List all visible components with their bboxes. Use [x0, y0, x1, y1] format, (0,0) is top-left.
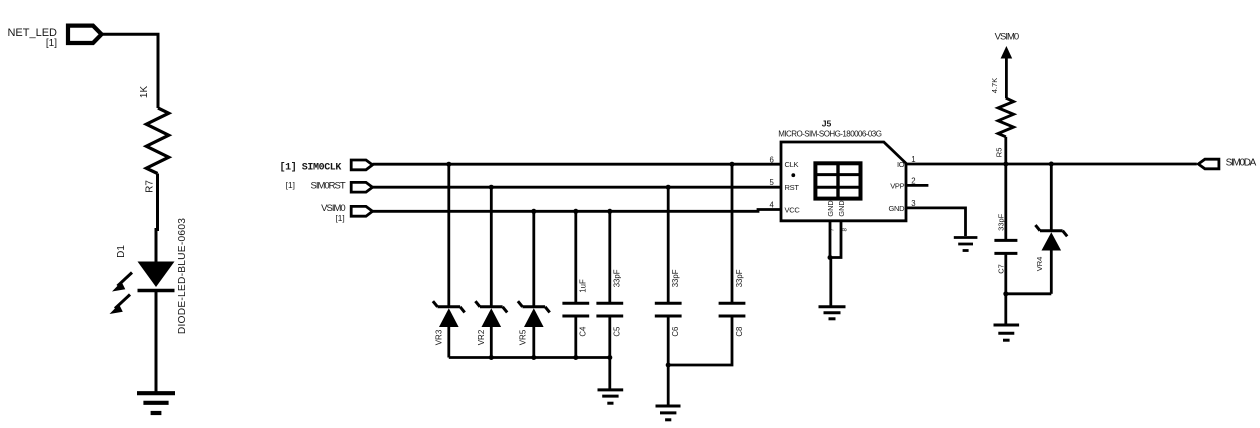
svg-text:NET_LED: NET_LED: [7, 27, 57, 39]
svg-text:SIM0RST: SIM0RST: [311, 181, 346, 192]
node junction CLK/VR3: [446, 162, 451, 167]
wire J5 pin 7 down: [829, 221, 832, 258]
svg-text:33pF: 33pF: [997, 213, 1006, 231]
svg-text:IO: IO: [897, 160, 905, 169]
wire VR2 to bus: [490, 326, 493, 358]
TVS diode VR4: [1035, 225, 1067, 271]
wire VCC line down to C5: [608, 211, 611, 302]
svg-text:VR4: VR4: [1035, 257, 1044, 272]
wire SIM0RST to J5 pin 5: [373, 186, 782, 189]
svg-text:J5: J5: [822, 119, 832, 129]
pin label GND (pin 3): [889, 199, 916, 213]
svg-text:[1]: [1]: [335, 213, 344, 223]
wire J5 pin 8 down and across: [830, 221, 841, 258]
svg-text:GND: GND: [889, 204, 906, 213]
svg-text:SIM0CLK: SIM0CLK: [302, 162, 342, 173]
port SIM0CLK: [280, 160, 373, 173]
svg-text:C7: C7: [997, 264, 1006, 274]
svg-text:GND: GND: [826, 200, 835, 216]
ground (C6): [656, 406, 681, 420]
pin label GND (pin 8) rotated: [837, 200, 849, 231]
svg-text:C6: C6: [671, 327, 680, 337]
power symbol VSIM0: [995, 31, 1019, 98]
resistor R7 1K: [139, 86, 169, 193]
svg-text:C8: C8: [735, 327, 744, 337]
ground (C7/VR4): [994, 325, 1020, 340]
TVS diode VR3: [433, 301, 465, 345]
svg-text:5: 5: [769, 178, 774, 187]
wire RST line down to C6: [667, 187, 670, 302]
node junction bus/VR2: [489, 355, 494, 360]
pin label VCC (pin 4): [769, 201, 800, 215]
wire pins 7/8 to ground: [829, 258, 832, 307]
wire node to ground: [1004, 294, 1007, 324]
TVS diode VR5: [518, 301, 550, 345]
wire J5 pin 3 GND to ground: [906, 208, 966, 236]
ground (C5 bus): [598, 390, 624, 403]
capacitor C5 33pF: [596, 269, 623, 336]
svg-text:4.7K: 4.7K: [990, 78, 999, 93]
wire J5 pin 1 IO to SIM0DA: [906, 163, 1197, 166]
node junction C7/VR4/ground: [1003, 291, 1008, 296]
svg-text:VR3: VR3: [434, 329, 443, 345]
wire VSIM0 to J5 pin 4: [373, 210, 782, 212]
wire VCC line down to VR5: [532, 211, 535, 306]
svg-text:MICRO-SIM-SOHG-180006-03G: MICRO-SIM-SOHG-180006-03G: [778, 130, 881, 139]
wire C7 down to ground node: [1004, 254, 1007, 293]
SIM card icon inside J5: [815, 163, 860, 198]
LED D1 DIODE-LED-BLUE-0603: [110, 218, 189, 334]
capacitor C4 1uF: [562, 279, 589, 337]
capacitor C6 33pF: [655, 269, 682, 336]
capacitor C7 33pF: [994, 213, 1017, 273]
svg-text:1uF: 1uF: [579, 279, 588, 293]
wire LED D1 to ground: [155, 291, 158, 392]
node junction CLK/C8: [730, 162, 735, 167]
wire C4 to bus: [574, 317, 577, 358]
svg-text:VCC: VCC: [785, 206, 801, 215]
svg-text:33pF: 33pF: [671, 269, 680, 287]
pin label CLK (pin 6): [769, 155, 798, 169]
pin label VPP (pin 2): [890, 177, 915, 191]
wire CLK line down to VR3: [447, 164, 450, 306]
ground (J5 pins 7/8): [819, 307, 846, 319]
wire RST line down to VR2: [490, 187, 493, 306]
svg-text:C5: C5: [613, 326, 622, 337]
wire C5 to bus and ground: [608, 317, 611, 389]
wire node to VR4 bottom: [1006, 292, 1052, 295]
wire J5 pin 2 VPP stub: [906, 184, 928, 187]
wire VR3 to bus: [447, 326, 450, 358]
port SIM0DA: [1198, 158, 1256, 169]
svg-text:VR2: VR2: [477, 329, 486, 345]
node junction IO/R5/C7: [1003, 162, 1008, 167]
node junction bus/VR5: [531, 355, 536, 360]
svg-text:R5: R5: [995, 148, 1004, 158]
wire C6 to ground: [667, 317, 670, 405]
port NET_LED: [7, 26, 101, 50]
wire CLK line down to C8: [731, 164, 734, 302]
wire VR4 to ground node: [1050, 250, 1053, 294]
node junction RST/C6: [666, 185, 671, 190]
port VSIM0 (net label): [321, 203, 372, 223]
wire IO line down to C7: [1004, 164, 1007, 239]
wire resistor R7 to LED D1: [156, 174, 158, 263]
connector J5 MICRO-SIM-SOHG-180006-03G body: [778, 119, 906, 221]
svg-text:VR5: VR5: [519, 329, 528, 345]
port SIM0RST: [286, 180, 373, 192]
svg-text:VSIM0: VSIM0: [995, 31, 1019, 42]
svg-text:R7: R7: [145, 180, 156, 193]
svg-text:[1]: [1]: [286, 180, 295, 190]
svg-text:D1: D1: [116, 245, 127, 258]
resistor R5 4.7K: [990, 78, 1014, 157]
svg-text:SIM0DA: SIM0DA: [1226, 158, 1257, 169]
ground (LED): [137, 393, 175, 413]
pin label IO (pin 1): [897, 155, 916, 169]
wire IO line down to VR4: [1050, 164, 1053, 230]
svg-text:[1]: [1]: [280, 161, 297, 173]
svg-text:8: 8: [842, 228, 849, 232]
svg-text:6: 6: [769, 155, 773, 164]
svg-text:VPP: VPP: [890, 181, 904, 190]
wire ground bus VR3-C5: [449, 356, 610, 359]
wire SIM0CLK to J5 pin 6: [373, 163, 782, 166]
capacitor C8 33pF: [719, 269, 746, 336]
svg-text:RST: RST: [785, 183, 800, 192]
node junction C6/C8 bus: [666, 363, 671, 368]
pin label GND (pin 7) rotated: [826, 200, 836, 231]
node junction VCC/VR5: [531, 209, 536, 214]
pin 1 marker dot inside J5: [791, 173, 795, 177]
wire R5 to IO line: [1004, 137, 1007, 164]
node junction VCC/C4: [573, 209, 578, 214]
svg-text:1K: 1K: [139, 86, 150, 99]
svg-text:GND: GND: [837, 200, 846, 216]
node junction RST/VR2: [489, 185, 494, 190]
node junction VCC/C5: [607, 209, 612, 214]
TVS diode VR2: [475, 301, 507, 345]
node junction pins 7/8: [828, 255, 833, 260]
svg-text:DIODE-LED-BLUE-0603: DIODE-LED-BLUE-0603: [177, 218, 188, 334]
svg-text:33pF: 33pF: [613, 269, 622, 287]
svg-text:[1]: [1]: [46, 38, 57, 49]
svg-text:4: 4: [769, 201, 774, 210]
svg-text:33pF: 33pF: [735, 269, 744, 287]
svg-text:CLK: CLK: [785, 160, 799, 169]
svg-text:C4: C4: [579, 326, 588, 337]
node junction IO/VR4: [1049, 162, 1054, 167]
pin label RST (pin 5): [769, 178, 799, 192]
ground (J5 pin 3): [954, 238, 978, 251]
node junction bus/C4: [573, 355, 578, 360]
wire from NET_LED to resistor R7: [102, 34, 159, 108]
wire C8 to C6 bus: [668, 317, 732, 365]
node junction bus/C5: [607, 355, 612, 360]
wire VCC line down to C4: [574, 211, 577, 302]
wire VR5 to bus: [532, 326, 535, 358]
